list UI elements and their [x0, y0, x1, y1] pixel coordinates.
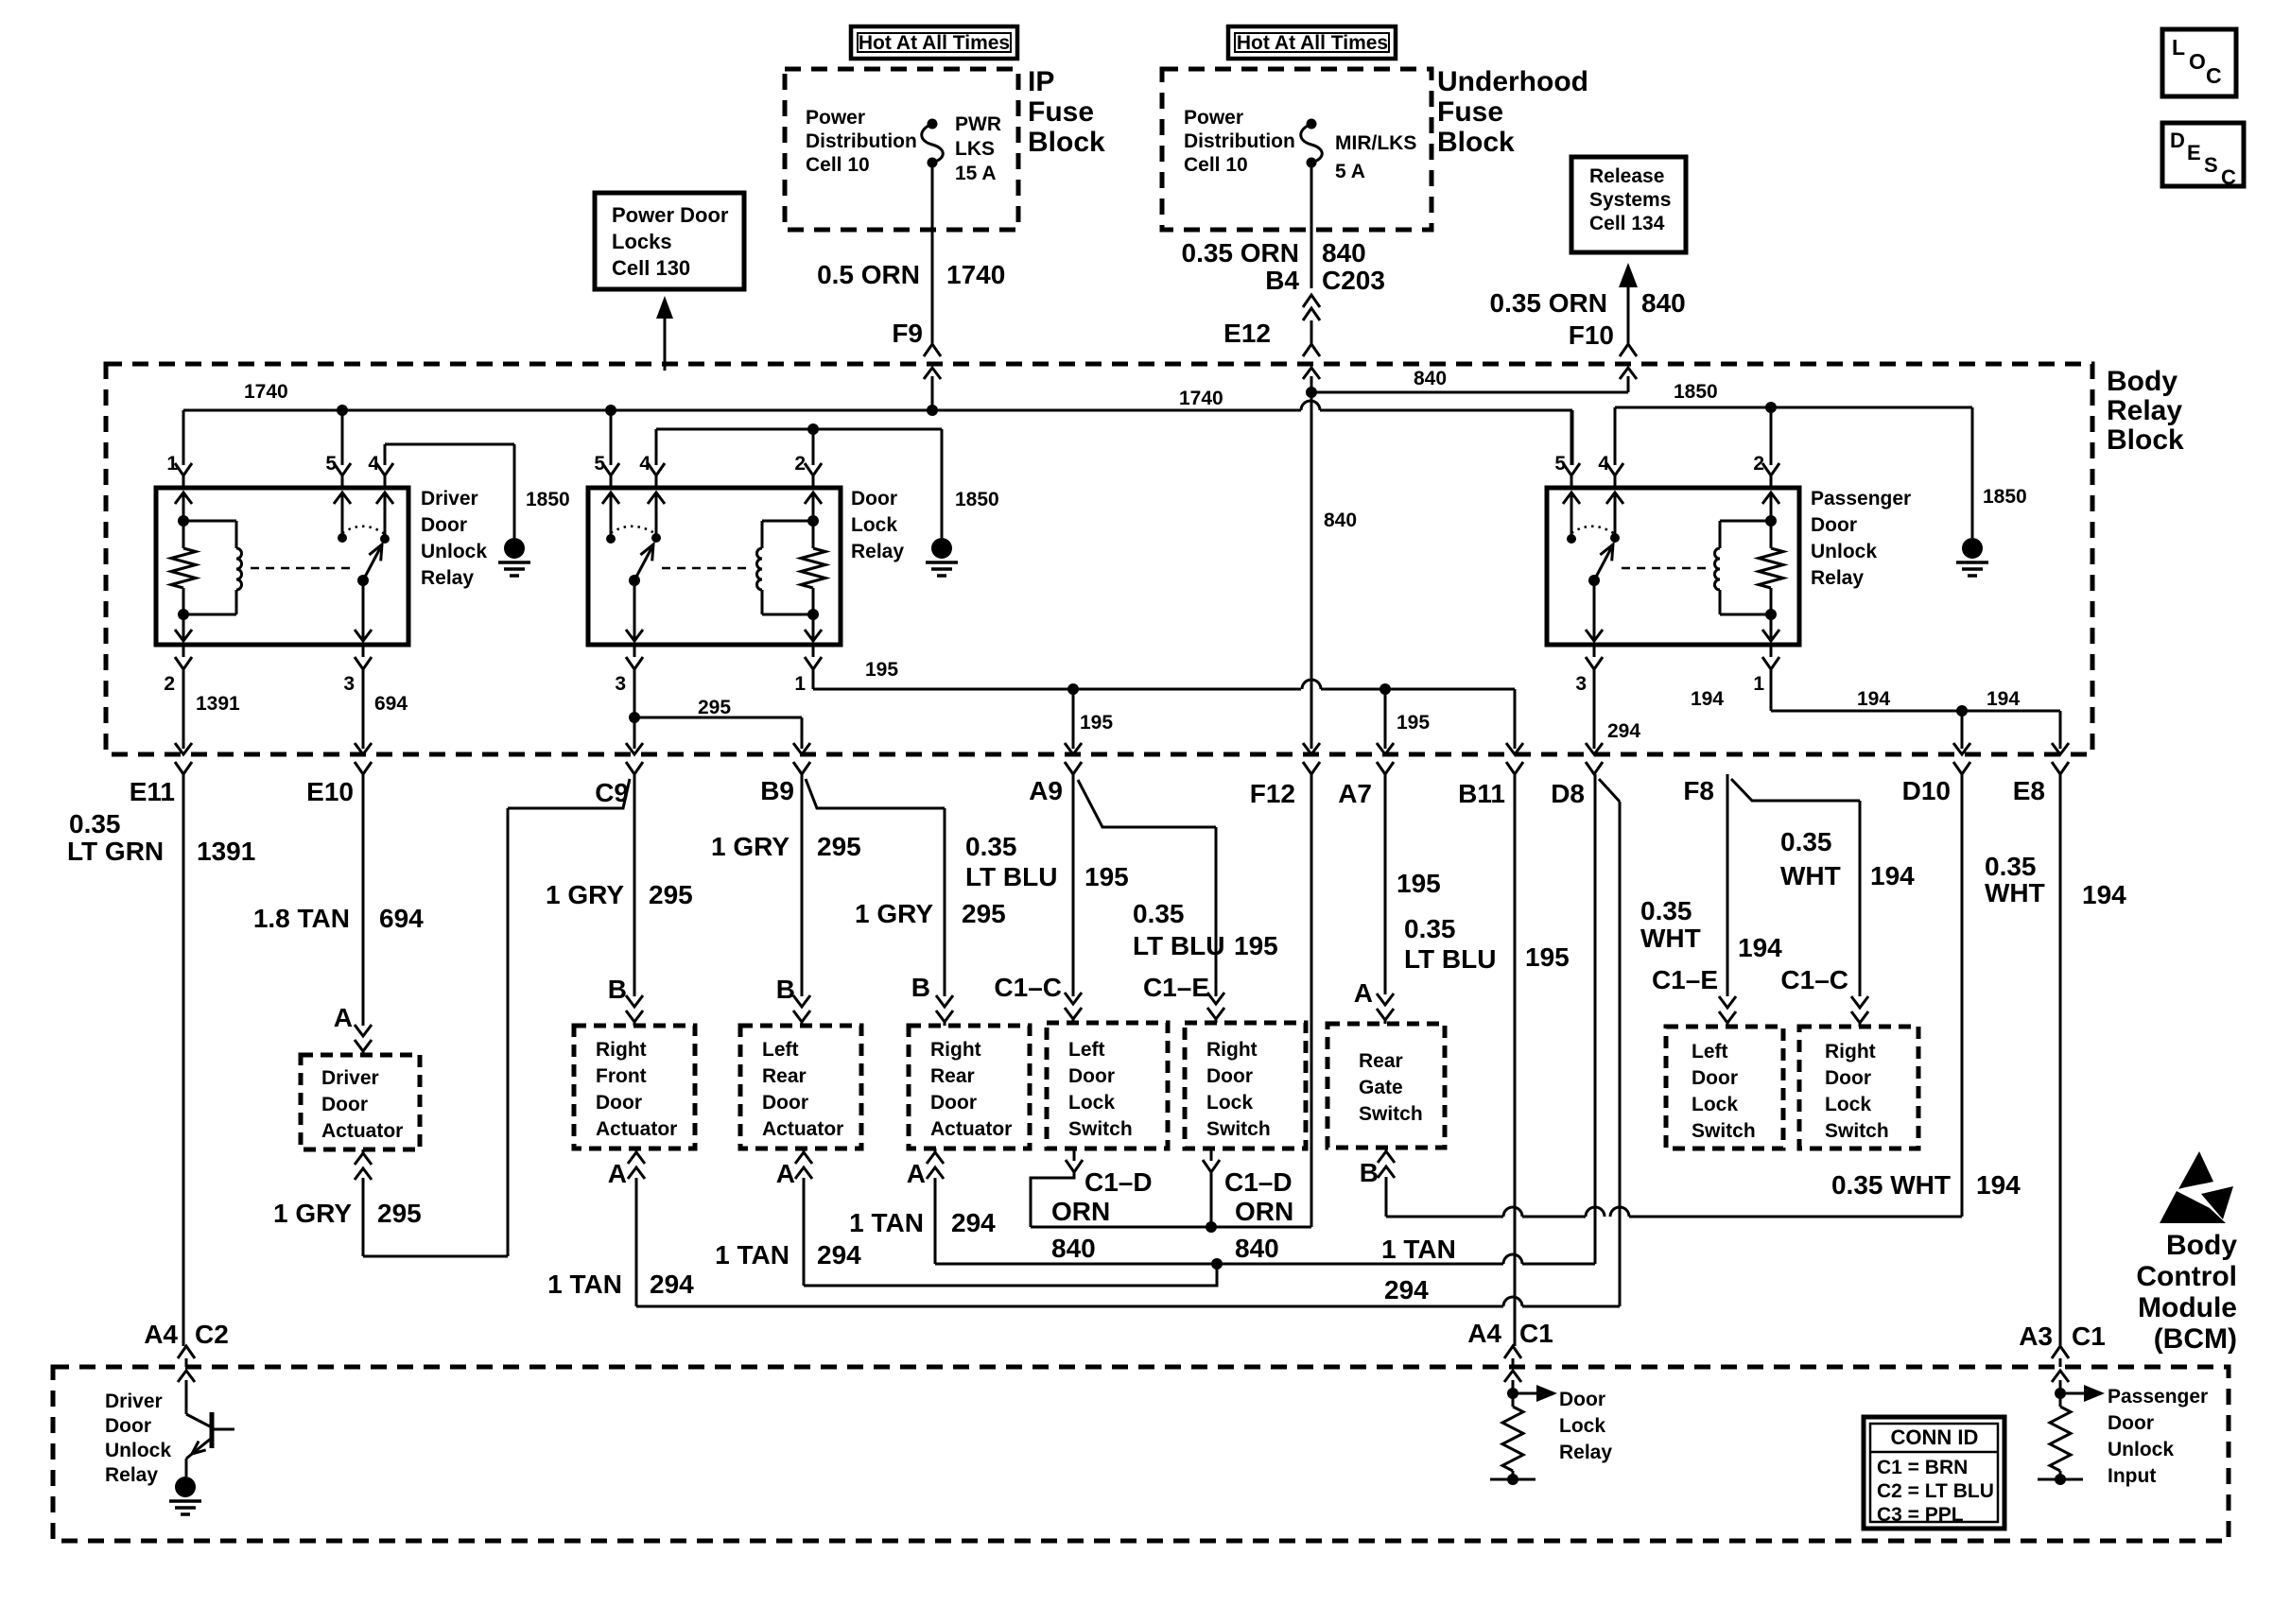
relay K2 box: Door Lock Relay [588, 488, 841, 645]
svg-text:LKS: LKS [955, 138, 995, 160]
svg-text:Fuse: Fuse [1437, 96, 1503, 128]
K1 mech link (dashed) [251, 567, 352, 570]
svg-text:Lock: Lock [1825, 1094, 1871, 1115]
svg-text:Rear: Rear [1359, 1050, 1403, 1072]
svg-text:Passenger: Passenger [2108, 1386, 2208, 1408]
wire: D8 branch to 294 trunk 2 [1599, 779, 1620, 1306]
svg-text:A: A [608, 1159, 627, 1188]
wire: F8 branch to Right Door Lock Switch C1-C [1731, 779, 1868, 1027]
svg-text:0.5 ORN: 0.5 ORN [817, 260, 920, 289]
svg-text:(BCM): (BCM) [2154, 1323, 2237, 1355]
K2 pin3 internal arrow [626, 580, 643, 641]
svg-text:5: 5 [325, 453, 337, 475]
svg-text:B4: B4 [1265, 266, 1299, 295]
K3 pin2 internal arrow [1762, 492, 1779, 527]
wire: B9 branch to Right Rear Door Actuator [806, 779, 953, 1026]
component box: Driver Door Actuator [301, 1055, 420, 1149]
svg-text:Right: Right [930, 1039, 981, 1061]
K1 pin3 internal arrow [355, 580, 372, 641]
svg-text:Driver: Driver [321, 1067, 379, 1089]
svg-text:C1: C1 [1519, 1319, 1553, 1348]
K1 pin5 internal arrow [334, 492, 351, 543]
svg-text:1 TAN: 1 TAN [547, 1270, 622, 1299]
K2 295 branch to B9 [629, 712, 810, 774]
svg-text:1: 1 [1753, 673, 1764, 695]
wire: 195 trunk [813, 680, 1515, 749]
label: K2 pin 2 [794, 453, 806, 475]
Body Relay Block dashed border [106, 364, 2092, 754]
svg-text:0.35: 0.35 [1780, 827, 1832, 856]
label: 0.35 LT BLU 195 (A9) [965, 832, 1129, 891]
195 branch to A7 [1377, 689, 1394, 774]
fuse MIR/LKS 5 A [1301, 119, 1323, 168]
svg-text:C1 = BRN: C1 = BRN [1877, 1457, 1968, 1478]
cell reference box: Release Systems Cell 134 [1571, 157, 1686, 252]
svg-text:Block: Block [1437, 127, 1515, 158]
svg-text:Lock: Lock [1692, 1094, 1738, 1115]
svg-text:Passenger: Passenger [1811, 488, 1911, 510]
K3 pin4 internal arrow [1606, 492, 1623, 543]
component box: Rear Gate Switch [1327, 1024, 1445, 1148]
svg-text:Door: Door [2108, 1412, 2154, 1434]
K2 pin 3 lead to C9 [615, 645, 643, 774]
svg-text:Hot At All Times: Hot At All Times [1237, 32, 1388, 54]
svg-text:Cell 10: Cell 10 [806, 154, 870, 176]
K1 pin 2 lead to E11 [164, 645, 192, 774]
svg-text:194: 194 [2082, 880, 2126, 909]
wire: C9 to Right Front Door Actuator [626, 774, 643, 1026]
label: Underhood Fuse Block [1437, 66, 1588, 158]
resistor (BCM door lock relay) [1490, 1407, 1536, 1485]
label: 1 GRY 295 (B9) [711, 832, 861, 861]
label: 1 GRY 295 (RR) [855, 899, 1006, 928]
K1 resistor [171, 521, 196, 614]
svg-text:D: D [2170, 129, 2185, 152]
label: K3 pin 4 [1598, 453, 1609, 475]
svg-text:840: 840 [1641, 288, 1686, 318]
svg-text:B: B [776, 975, 795, 1004]
label: A (driver actuator) [334, 1003, 353, 1032]
svg-text:Door: Door [930, 1092, 977, 1114]
svg-text:B11: B11 [1458, 779, 1505, 808]
resistor (BCM passenger input) [2038, 1407, 2083, 1485]
IP fuse block dashed box [785, 69, 1018, 230]
label: Door Lock Relay (BCM) [1559, 1389, 1612, 1463]
label: B (LR) [776, 975, 795, 1004]
svg-text:Unlock: Unlock [1811, 541, 1877, 562]
BCM entry A4/C1 [1504, 1346, 1521, 1382]
wire: A9 to Left Door Lock Switch C1-C [1065, 774, 1082, 1023]
svg-text:Door: Door [1825, 1067, 1871, 1089]
svg-text:1 TAN: 1 TAN [1381, 1235, 1456, 1264]
svg-text:Door: Door [1206, 1065, 1253, 1087]
component box: Right Rear Door Actuator [909, 1026, 1030, 1149]
svg-text:Unlock: Unlock [421, 541, 487, 562]
label: K3 pin 2 [1753, 453, 1764, 475]
svg-text:1: 1 [166, 453, 178, 475]
label: 1850 (K1) [526, 489, 570, 510]
svg-text:840: 840 [1051, 1234, 1096, 1263]
LOC reference box [2162, 29, 2236, 96]
ground (BCM driver) [169, 1477, 201, 1514]
svg-text:D8: D8 [1551, 779, 1585, 808]
K2 pin5 internal arrow [602, 492, 619, 544]
K1 contact arc (dashed) [342, 527, 385, 534]
label: IP Fuse Block [1028, 66, 1105, 158]
svg-text:Hot At All Times: Hot At All Times [859, 32, 1010, 54]
svg-text:Door: Door [105, 1415, 151, 1437]
label: 0.35 ORN 840 (F10) [1490, 288, 1686, 318]
wire: 840 E12 to F10 [1306, 387, 1628, 398]
label: D8 [1551, 779, 1585, 808]
label: A4 C1 [1467, 1319, 1553, 1348]
label: PWR LKS 15 A [955, 113, 1001, 184]
svg-text:Left: Left [762, 1039, 799, 1061]
svg-text:Actuator: Actuator [762, 1118, 843, 1140]
svg-text:840: 840 [1322, 238, 1366, 268]
label: A9 [1029, 776, 1063, 805]
svg-text:Module: Module [2138, 1292, 2237, 1323]
label: 0.35 WHT 194 (E8) [1985, 852, 2126, 909]
label: Body Control Module (BCM) [2136, 1230, 2237, 1355]
K3 1850 stub [1606, 402, 1988, 576]
svg-text:194: 194 [1857, 688, 1890, 710]
actuator A pin: Left Rear [776, 1149, 812, 1286]
label: 195 (pin1) [865, 659, 898, 681]
label: C1-E (RDLS) [1143, 973, 1209, 1002]
svg-text:Switch: Switch [1068, 1118, 1133, 1140]
svg-text:Relay: Relay [1811, 567, 1864, 589]
svg-text:PWR: PWR [955, 113, 1001, 135]
svg-text:0.35 WHT: 0.35 WHT [1831, 1170, 1951, 1200]
wire: E10 to Driver Door Actuator [355, 774, 372, 1055]
label: B9 [760, 776, 794, 805]
label: C1-D ORN 840 (right) [1224, 1167, 1293, 1263]
svg-text:694: 694 [374, 693, 408, 715]
svg-text:Cell 134: Cell 134 [1589, 213, 1665, 234]
K1 switch arm [357, 544, 382, 586]
K2 pin 1 lead [794, 645, 822, 695]
label: 195 (A9) [1080, 712, 1113, 734]
svg-text:3: 3 [615, 673, 626, 695]
svg-text:0.35 ORN: 0.35 ORN [1182, 238, 1300, 268]
svg-text:C3 = PPL: C3 = PPL [1877, 1504, 1964, 1526]
label: K2 pin 4 [639, 453, 651, 475]
label: C1-C (right group) [1780, 965, 1848, 994]
svg-text:Actuator: Actuator [930, 1118, 1012, 1140]
svg-text:C: C [2206, 63, 2222, 88]
svg-text:Cell 10: Cell 10 [1184, 154, 1248, 176]
component box: Right Door Lock Switch [1185, 1023, 1306, 1149]
junction box label: Hot At All Times (IP) [851, 26, 1017, 59]
actuator A pin: Right Front [608, 1149, 645, 1306]
wire: 0.35 ORN 840 from underhood fuse [1310, 163, 1313, 288]
svg-text:A3: A3 [2019, 1322, 2053, 1351]
K3 resistor [1759, 521, 1783, 614]
svg-text:3: 3 [1575, 673, 1587, 695]
wire: 294 trunk (D8) [804, 1254, 1595, 1286]
K1 pin2 internal arrow [175, 609, 192, 641]
svg-text:Driver: Driver [421, 488, 478, 510]
svg-text:Door: Door [321, 1094, 368, 1115]
label: K3 pin 5 [1554, 453, 1566, 475]
label: 0.5 ORN 1740 [817, 260, 1005, 289]
svg-text:0.35: 0.35 [1133, 899, 1185, 928]
label: 840 (top) [1414, 368, 1447, 389]
svg-text:F9: F9 [892, 319, 923, 348]
svg-text:1850: 1850 [526, 489, 570, 510]
svg-text:C1–C: C1–C [1780, 965, 1848, 994]
svg-text:5: 5 [1554, 453, 1566, 475]
K3 pin 5 riser [1563, 410, 1580, 488]
label: 840 (riser) [1324, 510, 1357, 531]
svg-text:LT GRN: LT GRN [67, 837, 164, 866]
K2 pin4/pin2 1850 stub [648, 423, 958, 576]
svg-text:195: 195 [1080, 712, 1113, 734]
svg-text:A: A [907, 1159, 926, 1188]
label: Passenger Door Unlock Input [2108, 1386, 2208, 1487]
svg-text:294: 294 [650, 1270, 694, 1299]
K3 pin 3 lead to D8 [1575, 645, 1603, 774]
svg-text:S: S [2204, 153, 2218, 177]
label: 1 TAN 294 (trunk) [1381, 1235, 1456, 1304]
BCM door lock relay input [1507, 1380, 1557, 1407]
label: 1 GRY 295 (C9) [546, 880, 693, 909]
svg-text:B: B [911, 973, 930, 1002]
label: C9 [595, 778, 629, 807]
svg-text:Body: Body [2107, 366, 2178, 397]
label: 294 (pin3) [1607, 720, 1640, 742]
Underhood fuse block dashed box [1162, 69, 1431, 230]
label: D10 [1902, 776, 1951, 805]
K1 pin4 internal arrow [376, 492, 393, 544]
K3 pin5 internal arrow [1563, 492, 1580, 544]
label: A7 [1338, 779, 1372, 808]
label: E11 [130, 777, 175, 806]
svg-text:LT BLU: LT BLU [1133, 931, 1224, 960]
K2 coil [757, 521, 814, 614]
K2 pin 5 riser [602, 410, 619, 488]
svg-text:E8: E8 [2013, 776, 2045, 805]
label: Body Relay Block [2107, 366, 2184, 456]
label: 1 GRY 295 (branch) [273, 1199, 422, 1228]
svg-text:1740: 1740 [1179, 388, 1223, 409]
K2 mech link (dashed) [662, 567, 749, 570]
svg-text:A: A [334, 1003, 353, 1032]
wire: 840 link to F12 [1031, 1226, 1311, 1229]
svg-text:A7: A7 [1338, 779, 1372, 808]
svg-text:0.35: 0.35 [1985, 852, 2037, 881]
label: F9 [892, 319, 923, 348]
svg-text:Control: Control [2136, 1261, 2237, 1292]
svg-text:Rear: Rear [762, 1065, 807, 1087]
label: K1 pin 5 [325, 453, 337, 475]
label: MIR/LKS 5 A [1335, 132, 1416, 182]
svg-text:MIR/LKS: MIR/LKS [1335, 132, 1416, 154]
svg-text:3: 3 [343, 673, 355, 695]
svg-text:Relay: Relay [2107, 395, 2182, 426]
svg-text:694: 694 [379, 904, 424, 933]
K1 pin 4 riser and 1850 ground stub [376, 444, 530, 576]
svg-text:C1–D: C1–D [1084, 1167, 1153, 1197]
transistor: Driver Door Unlock Relay driver [186, 1380, 234, 1477]
fuse PWR LKS 15 A [922, 119, 944, 168]
svg-text:0.35: 0.35 [69, 809, 121, 838]
svg-text:Block: Block [1028, 127, 1105, 158]
wire: 294 trunk 2 (D8 branch to RF) [636, 1297, 1620, 1306]
label: 195 (A7 mid) [1397, 869, 1441, 898]
K3 mech link (dashed) [1622, 567, 1707, 570]
wire: E8 to BCM A3/C1 [2059, 774, 2062, 1346]
svg-text:C1–E: C1–E [1652, 965, 1718, 994]
BCM entry A4/C2 [178, 1346, 195, 1382]
svg-text:0.35: 0.35 [1404, 914, 1456, 943]
svg-text:LT BLU: LT BLU [965, 862, 1057, 891]
wire: B11 to BCM A4/C1 [1514, 774, 1517, 1346]
svg-text:E11: E11 [130, 777, 175, 806]
wire: 840 riser through block [1303, 392, 1320, 774]
svg-text:Relay: Relay [851, 541, 904, 562]
label: K2 pin 5 [594, 453, 605, 475]
label: 194 x3 [1691, 688, 2020, 710]
label: 1.8 TAN 694 [253, 904, 424, 933]
label: 0.35 LT BLU (A7) [1404, 914, 1496, 974]
svg-text:295: 295 [377, 1199, 422, 1228]
wire: B9 to Left Rear Door Actuator [793, 774, 810, 1026]
Body Control Module dashed border [53, 1367, 2229, 1541]
svg-text:840: 840 [1414, 368, 1447, 389]
svg-text:WHT: WHT [1985, 878, 2045, 907]
label: B (RF) [608, 975, 627, 1004]
CONN ID table [1864, 1417, 2004, 1529]
svg-text:840: 840 [1324, 510, 1357, 531]
svg-text:294: 294 [951, 1208, 996, 1237]
svg-text:1391: 1391 [197, 837, 255, 866]
label: 694 [374, 693, 408, 715]
svg-text:Body: Body [2166, 1230, 2237, 1261]
svg-text:F8: F8 [1683, 776, 1714, 805]
wire: F8 to Left Door Lock Switch C1-E [1719, 774, 1736, 1027]
svg-text:1740: 1740 [244, 381, 288, 403]
svg-text:Lock: Lock [1559, 1415, 1605, 1437]
label: F8 [1683, 776, 1714, 805]
BCM entry A3/C1 [2052, 1346, 2069, 1382]
svg-text:1 TAN: 1 TAN [715, 1240, 789, 1270]
svg-text:A9: A9 [1029, 776, 1063, 805]
svg-text:C1–C: C1–C [994, 973, 1062, 1002]
svg-text:Switch: Switch [1359, 1103, 1423, 1125]
svg-text:Front: Front [596, 1065, 647, 1087]
wire: A9 branch to Right Door Lock Switch C1-E [1078, 780, 1224, 1023]
svg-text:294: 294 [1384, 1275, 1429, 1304]
label: 1 TAN 294 (RF) [547, 1270, 694, 1299]
svg-text:Left: Left [1068, 1039, 1105, 1061]
label: Passenger Door Unlock Relay [1811, 488, 1911, 589]
label: 1 TAN 294 (RR) [849, 1208, 996, 1237]
svg-text:1 TAN: 1 TAN [849, 1208, 924, 1237]
svg-text:194: 194 [1870, 861, 1915, 890]
svg-text:195: 195 [1397, 869, 1441, 898]
svg-text:Door: Door [1559, 1389, 1605, 1410]
svg-text:B: B [608, 975, 627, 1004]
svg-text:ORN: ORN [1051, 1197, 1110, 1226]
inline connector C203 [1303, 295, 1320, 343]
svg-text:Switch: Switch [1206, 1118, 1271, 1140]
component box: Left Door Lock Switch (passenger side) [1666, 1027, 1783, 1149]
svg-text:A: A [776, 1159, 795, 1188]
K2 pin1 internal arrow [805, 609, 822, 641]
svg-text:194: 194 [1738, 933, 1782, 962]
label: 0.35 LT BLU 195 (branch) [1133, 899, 1278, 960]
svg-text:IP: IP [1028, 66, 1054, 97]
svg-text:Lock: Lock [851, 514, 897, 536]
svg-text:Lock: Lock [1206, 1092, 1253, 1114]
svg-text:D10: D10 [1902, 776, 1951, 805]
label: 1850 (K3 top) [1674, 381, 1718, 403]
svg-text:194: 194 [1987, 688, 2020, 710]
svg-text:Power Door: Power Door [612, 203, 729, 227]
svg-text:5: 5 [594, 453, 605, 475]
svg-text:A4: A4 [1467, 1319, 1501, 1348]
svg-text:1391: 1391 [196, 693, 240, 715]
label: C1-D ORN 840 (left) [1051, 1167, 1153, 1263]
svg-text:Release: Release [1589, 165, 1664, 187]
label: E10 [306, 777, 354, 806]
component box: Left Rear Door Actuator [740, 1026, 861, 1149]
label: Power Distribution Cell 10 (Underhood) [1184, 107, 1295, 176]
195 branch to B11 [1506, 743, 1523, 774]
svg-text:Door: Door [1692, 1067, 1738, 1089]
svg-text:Door: Door [1811, 514, 1857, 536]
svg-text:195: 195 [1084, 862, 1129, 891]
svg-text:195: 195 [1397, 712, 1430, 734]
svg-text:L: L [2172, 35, 2185, 60]
label: 0.35 LT GRN 1391 [67, 809, 255, 866]
label: 1391 [196, 693, 240, 715]
label: K1 pin 1 [166, 453, 178, 475]
svg-text:C2 = LT BLU: C2 = LT BLU [1877, 1480, 1994, 1502]
svg-text:0.35 ORN: 0.35 ORN [1490, 288, 1608, 318]
rear gate switch pin B [1360, 1148, 1395, 1217]
K1 pin 1 riser [175, 463, 192, 488]
label: 0.35 WHT 194 (bottom) [1831, 1170, 2021, 1200]
svg-text:A: A [1354, 978, 1373, 1008]
wire: C1-D jog from Left Door Lock Switch [1031, 1149, 1083, 1227]
svg-text:Underhood: Underhood [1437, 66, 1588, 97]
svg-text:295: 295 [962, 899, 1006, 928]
label: A (rear gate) [1354, 978, 1373, 1008]
label: K1 pin 4 [368, 453, 379, 475]
svg-text:C: C [2221, 165, 2236, 189]
svg-text:2: 2 [164, 673, 175, 695]
svg-text:5 A: 5 A [1335, 161, 1365, 182]
label: 1740 (left) [244, 381, 288, 403]
component box: Right Front Door Actuator [574, 1026, 695, 1149]
svg-text:1: 1 [794, 673, 806, 695]
svg-text:Door: Door [596, 1092, 642, 1114]
svg-text:Relay: Relay [421, 567, 474, 589]
actuator A pin: Right Rear [907, 1149, 944, 1264]
arrow to Power Door Locks cell [656, 296, 673, 371]
svg-text:195: 195 [1234, 931, 1278, 960]
svg-text:Unlock: Unlock [105, 1440, 171, 1461]
svg-text:Switch: Switch [1692, 1120, 1756, 1142]
svg-text:Power: Power [1184, 107, 1243, 129]
label: 0.35 WHT 194 (F8) [1640, 896, 1782, 962]
junction dots on 1740 bus [337, 405, 938, 416]
svg-text:C1–E: C1–E [1143, 973, 1209, 1002]
svg-text:0.35: 0.35 [1640, 896, 1692, 925]
